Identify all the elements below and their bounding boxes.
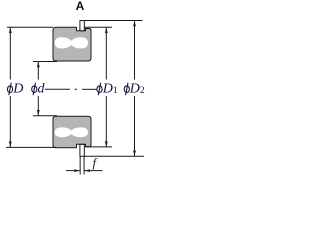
rollers lower (white barrel pair) [55, 127, 88, 137]
arrow phiD1 up [105, 28, 108, 34]
extension line phid top [33, 61, 57, 63]
f dimension line left segment [66, 170, 80, 172]
outer+inner ring lower section [53, 116, 91, 148]
extension line phiD2 bottom [85, 155, 145, 157]
f dimension line right segment [84, 170, 102, 172]
svg-text:d: d [38, 82, 46, 97]
label phiD [7, 83, 12, 96]
dimension line phid vertical [37, 62, 39, 80]
svg-text:A: A [76, 0, 85, 13]
arrow phiD up [9, 28, 12, 34]
extension line phid bottom [33, 115, 57, 117]
centerline (axis, dash-dot) [45, 88, 70, 90]
label phiD2 [124, 83, 129, 96]
arrow f left-pointing [84, 169, 90, 172]
arrow phiD1 down [105, 141, 108, 147]
arrow phid up [37, 62, 40, 68]
f extension line left [79, 156, 81, 174]
extension line phiD1 bottom [85, 146, 112, 148]
extension line phiD bottom [6, 146, 56, 148]
rollers upper (white barrel pair) [55, 37, 88, 48]
extension line phiD2 top [85, 20, 143, 22]
extension line phiD top [7, 26, 53, 28]
arrow phid down [37, 110, 40, 116]
svg-text:D: D [12, 82, 23, 97]
dimension line phiD2 vertical [134, 21, 136, 80]
dimension line phiD1 vertical [105, 28, 107, 80]
label phid [32, 83, 37, 96]
extension line phiD1 top [85, 26, 113, 28]
snap ring upper [80, 21, 84, 31]
outer+inner ring upper section [53, 27, 91, 61]
dimension line phiD vertical [9, 28, 11, 80]
arrow phiD down [9, 142, 12, 148]
label phiD1 [97, 83, 102, 96]
arrow f right-pointing [74, 169, 80, 172]
snap ring lower [80, 144, 84, 156]
arrow phiD2 down [133, 151, 136, 157]
arrow phiD2 up [133, 21, 136, 27]
f extension line right [83, 156, 85, 174]
